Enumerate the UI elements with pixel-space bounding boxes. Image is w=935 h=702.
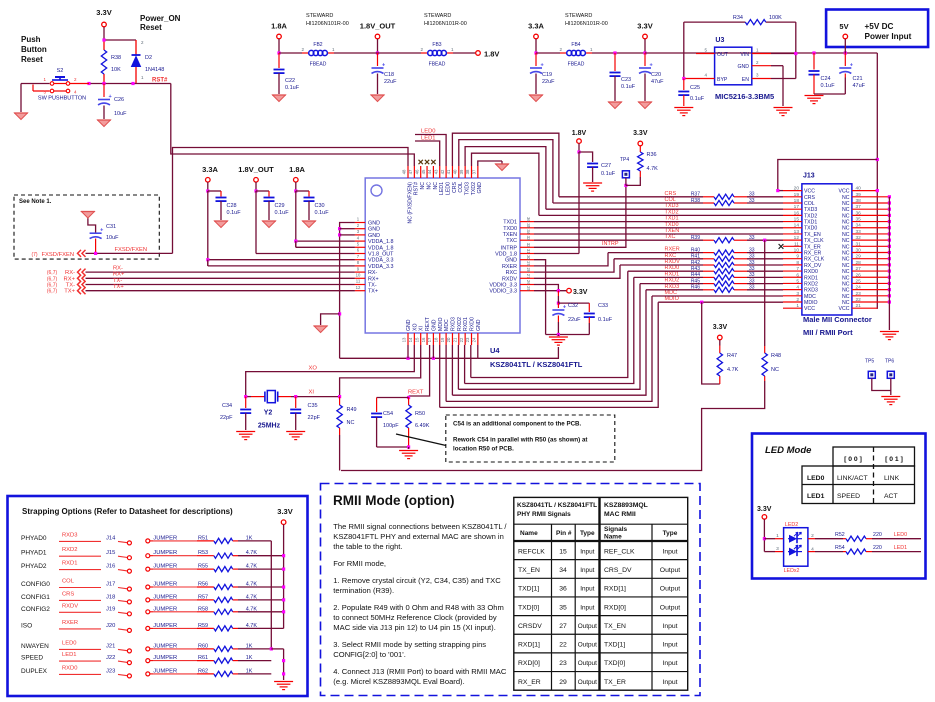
svg-text:16: 16 — [421, 337, 426, 342]
svg-text:MDIO: MDIO — [665, 296, 680, 302]
svg-text:SW PUSHBUTTON: SW PUSHBUTTON — [38, 96, 86, 102]
svg-text:Reset: Reset — [21, 55, 43, 64]
svg-text:REXT: REXT — [408, 390, 424, 396]
svg-text:Output: Output — [578, 623, 597, 630]
svg-text:3: 3 — [796, 291, 799, 297]
svg-text:22uF: 22uF — [384, 79, 397, 85]
svg-text:40: 40 — [453, 169, 458, 174]
svg-text:0.1uF: 0.1uF — [601, 171, 616, 177]
svg-text:31: 31 — [526, 249, 531, 254]
svg-text:RX-: RX- — [113, 266, 123, 272]
svg-text:3.3V: 3.3V — [277, 507, 292, 516]
svg-text:CRS: CRS — [62, 591, 74, 597]
svg-text:R48: R48 — [771, 353, 781, 359]
svg-text:J22: J22 — [106, 655, 115, 661]
svg-text:C31: C31 — [106, 224, 116, 230]
svg-text:GND: GND — [431, 319, 437, 331]
svg-text:RXD2: RXD2 — [665, 278, 680, 284]
svg-text:+: + — [650, 63, 653, 69]
svg-text:PHYAD2: PHYAD2 — [21, 563, 47, 570]
svg-text:48: 48 — [402, 169, 407, 174]
svg-text:TP6: TP6 — [885, 359, 894, 365]
svg-text:R52: R52 — [835, 532, 845, 538]
svg-text:NC: NC — [842, 294, 850, 300]
svg-text:MDIO: MDIO — [804, 300, 818, 306]
svg-text:RXD[0]: RXD[0] — [604, 604, 626, 611]
svg-text:VCC: VCC — [804, 306, 815, 312]
svg-text:+: + — [382, 63, 385, 69]
svg-text:CRSDV: CRSDV — [518, 623, 542, 630]
svg-text:22: 22 — [559, 642, 567, 649]
svg-text:RXD0: RXD0 — [62, 665, 77, 671]
svg-text:STEWARD: STEWARD — [424, 13, 451, 19]
svg-text:RX+: RX+ — [64, 276, 76, 282]
svg-text:MIC5216-3.3BM5: MIC5216-3.3BM5 — [715, 92, 774, 101]
svg-text:VDDIO_3.3: VDDIO_3.3 — [489, 289, 517, 295]
svg-text:the table to the right.: the table to the right. — [333, 542, 402, 551]
svg-text:NC: NC — [842, 238, 850, 244]
svg-text:8: 8 — [796, 260, 799, 266]
svg-text:C54: C54 — [383, 411, 393, 417]
svg-text:9: 9 — [796, 254, 799, 260]
svg-text:RXC: RXC — [665, 253, 677, 259]
svg-text:TXD[0]: TXD[0] — [604, 660, 625, 667]
svg-text:+: + — [109, 94, 112, 100]
svg-text:MDC: MDC — [444, 319, 450, 331]
svg-text:C33: C33 — [598, 303, 608, 309]
svg-text:RXD3: RXD3 — [62, 532, 77, 538]
svg-text:33: 33 — [526, 236, 531, 241]
svg-text:3. Select RMII mode by settin: 3. Select RMII mode by setting strapping… — [333, 640, 486, 649]
svg-text:26: 26 — [526, 280, 531, 285]
svg-text:FB2: FB2 — [313, 42, 322, 48]
svg-text:NC: NC — [842, 257, 850, 263]
svg-text:NC: NC — [426, 182, 432, 190]
svg-text:C29: C29 — [275, 203, 285, 209]
svg-text:RXD3: RXD3 — [450, 317, 456, 331]
svg-text:Name: Name — [520, 530, 538, 537]
svg-text:(e.g. Micrel KSZ8893MQL Eval B: (e.g. Micrel KSZ8893MQL Eval Board). — [333, 677, 464, 686]
svg-text:1: 1 — [796, 303, 799, 309]
svg-text:RXER: RXER — [62, 620, 78, 626]
svg-text:C19: C19 — [542, 72, 552, 78]
svg-text:15: 15 — [414, 337, 419, 342]
svg-text:TX_ER: TX_ER — [804, 244, 821, 250]
svg-text:GND: GND — [368, 221, 380, 227]
svg-text:47uF: 47uF — [651, 79, 664, 85]
svg-text:(7): (7) — [31, 252, 37, 258]
svg-text:R38: R38 — [111, 55, 121, 61]
svg-text:C30: C30 — [315, 203, 325, 209]
svg-text:COL: COL — [665, 197, 676, 203]
svg-text:3: 3 — [776, 546, 779, 552]
svg-text:J15: J15 — [106, 550, 115, 556]
svg-text:TX_ER: TX_ER — [604, 679, 626, 686]
svg-text:The RMII signal connections be: The RMII signal connections between KSZ8… — [333, 522, 507, 531]
svg-text:RXD[1]: RXD[1] — [518, 642, 540, 649]
svg-text:FXSD/FXEN: FXSD/FXEN — [42, 252, 75, 258]
svg-text:PHYAD0: PHYAD0 — [21, 535, 47, 542]
svg-text:220: 220 — [873, 532, 882, 538]
svg-text:R47: R47 — [727, 353, 737, 359]
svg-text:+: + — [563, 305, 566, 311]
svg-text:1N4148: 1N4148 — [145, 67, 164, 73]
svg-text:TX+: TX+ — [368, 289, 378, 295]
svg-text:R36: R36 — [647, 152, 657, 158]
svg-text:38: 38 — [465, 169, 470, 174]
svg-text:10K: 10K — [111, 67, 121, 73]
svg-text:6: 6 — [796, 272, 799, 278]
svg-text:RXD1: RXD1 — [463, 317, 469, 331]
svg-text:TP5: TP5 — [865, 359, 874, 365]
svg-text:KSZ8041FTL PHY and external MA: KSZ8041FTL PHY and external MAC are show… — [333, 532, 504, 541]
svg-text:RXD0: RXD0 — [804, 269, 818, 275]
svg-text:16: 16 — [794, 210, 800, 216]
svg-text:C22: C22 — [285, 78, 295, 84]
svg-text:MAC side via J13 pin 12) to U4: MAC side via J13 pin 12) to U4 pin 15 (X… — [333, 623, 496, 632]
svg-text:Signals: Signals — [604, 526, 628, 533]
svg-text:21: 21 — [453, 337, 458, 342]
svg-text:termination (R39).: termination (R39). — [333, 586, 394, 595]
svg-text:LED1: LED1 — [894, 545, 907, 551]
svg-text:28: 28 — [526, 268, 531, 273]
svg-text:LED1: LED1 — [807, 493, 825, 500]
svg-text:NC: NC — [842, 207, 850, 213]
svg-text:KSZ8041TL / KSZ8041FTL: KSZ8041TL / KSZ8041FTL — [490, 360, 583, 369]
svg-text:1.8A: 1.8A — [271, 22, 287, 31]
svg-text:LINK: LINK — [884, 475, 900, 482]
svg-text:25MHz: 25MHz — [258, 423, 281, 430]
svg-text:NC: NC — [842, 244, 850, 250]
svg-text:Button: Button — [21, 45, 47, 54]
svg-text:RXD2: RXD2 — [62, 547, 77, 553]
svg-text:0.1uF: 0.1uF — [821, 83, 836, 89]
svg-text:HI1206N101R-00: HI1206N101R-00 — [565, 21, 608, 27]
svg-text:TX-: TX- — [66, 283, 75, 289]
svg-text:TXD1: TXD1 — [503, 220, 517, 226]
svg-text:RX-: RX- — [65, 270, 75, 276]
svg-text:VCC: VCC — [804, 189, 815, 195]
svg-text:INTRP: INTRP — [501, 245, 518, 251]
svg-text:TX_EN: TX_EN — [518, 567, 540, 574]
svg-text:29: 29 — [526, 261, 531, 266]
svg-text:NC: NC — [842, 226, 850, 232]
svg-text:Input: Input — [662, 623, 677, 630]
svg-text:TXD3: TXD3 — [804, 207, 817, 213]
svg-text:C27: C27 — [601, 163, 611, 169]
svg-text:NC (FXSD/FXEN): NC (FXSD/FXEN) — [407, 182, 413, 224]
svg-text:Output: Output — [660, 567, 681, 574]
svg-text:VDDA_1.8: VDDA_1.8 — [368, 245, 393, 251]
svg-text:47: 47 — [408, 169, 413, 174]
svg-text:23: 23 — [465, 337, 470, 342]
svg-text:R54: R54 — [835, 545, 845, 551]
svg-text:3.3V: 3.3V — [573, 289, 588, 296]
svg-text:4.7K: 4.7K — [647, 166, 659, 172]
svg-text:Input: Input — [580, 548, 594, 555]
svg-text:Input: Input — [662, 548, 677, 555]
svg-text:15: 15 — [559, 548, 567, 555]
svg-text:FB4: FB4 — [571, 42, 580, 48]
svg-text:C25: C25 — [690, 85, 700, 91]
svg-text:J20: J20 — [106, 623, 115, 629]
svg-text:17: 17 — [427, 337, 432, 342]
svg-text:Pin #: Pin # — [556, 530, 572, 537]
svg-text:19: 19 — [794, 192, 800, 198]
svg-text:220: 220 — [873, 545, 882, 551]
svg-text:15: 15 — [794, 217, 800, 223]
svg-text:0.1uF: 0.1uF — [598, 317, 613, 323]
svg-text:Input: Input — [662, 679, 677, 686]
svg-text:LED0: LED0 — [807, 475, 825, 482]
svg-text:BYP: BYP — [717, 77, 728, 83]
svg-text:PHY RMII Signals: PHY RMII Signals — [517, 511, 571, 518]
svg-text:7: 7 — [796, 266, 799, 272]
svg-text:32: 32 — [526, 243, 531, 248]
svg-text:to connect 50MHz Reference Clo: to connect 50MHz Reference Clock (provid… — [333, 613, 497, 622]
svg-text:MDC: MDC — [804, 294, 816, 300]
svg-text:43: 43 — [433, 169, 438, 174]
svg-text:1. Remove crystal circuit (Y2: 1. Remove crystal circuit (Y2, C34, C35)… — [333, 576, 501, 585]
svg-text:18: 18 — [433, 337, 438, 342]
svg-text:Output: Output — [578, 679, 597, 686]
svg-text:100pF: 100pF — [383, 423, 399, 429]
svg-text:MII / RMII Port: MII / RMII Port — [803, 328, 853, 337]
svg-text:MAC RMII: MAC RMII — [604, 511, 636, 518]
svg-text:RXER: RXER — [665, 247, 680, 253]
svg-text:C35: C35 — [308, 403, 318, 409]
svg-text:C21: C21 — [853, 76, 863, 82]
svg-text:Name: Name — [604, 534, 622, 541]
svg-text:Power Input: Power Input — [865, 32, 912, 41]
svg-text:TXD2: TXD2 — [665, 209, 679, 215]
svg-text:11: 11 — [794, 241, 799, 247]
svg-text:SPEED: SPEED — [21, 655, 43, 662]
svg-text:GND: GND — [368, 233, 380, 239]
svg-text:NC: NC — [842, 300, 850, 306]
svg-text:LED0: LED0 — [421, 129, 436, 135]
svg-text:CRS_DV: CRS_DV — [604, 567, 632, 574]
svg-text:XI: XI — [419, 326, 425, 331]
svg-text:FBEAD: FBEAD — [310, 62, 327, 68]
svg-text:(6,7): (6,7) — [47, 276, 58, 282]
svg-text:SPEED: SPEED — [837, 493, 860, 500]
svg-text:RX_CLK: RX_CLK — [804, 257, 825, 263]
svg-text:RXD0: RXD0 — [665, 265, 680, 271]
svg-text:0.1uF: 0.1uF — [227, 210, 242, 216]
svg-text:J16: J16 — [106, 564, 115, 570]
svg-text:LINK/ACT: LINK/ACT — [837, 475, 868, 482]
svg-text:RST#: RST# — [414, 182, 420, 195]
svg-text:47uF: 47uF — [853, 83, 866, 89]
svg-text:2. Populate R49 with 0 Ohm an: 2. Populate R49 with 0 Ohm and R48 with … — [333, 603, 504, 612]
svg-text:DUPLEX: DUPLEX — [21, 668, 48, 675]
svg-text:22pF: 22pF — [220, 415, 233, 421]
svg-text:11: 11 — [356, 279, 361, 284]
svg-text:GND: GND — [406, 319, 412, 331]
svg-text:CONFIG[2:0] to '001'.: CONFIG[2:0] to '001'. — [333, 650, 406, 659]
svg-text:36: 36 — [559, 586, 567, 593]
svg-text:RX+: RX+ — [368, 276, 379, 282]
svg-text:REF_CLK: REF_CLK — [604, 548, 635, 555]
svg-text:LED1: LED1 — [439, 182, 445, 195]
svg-text:RXD3: RXD3 — [665, 284, 680, 290]
svg-text:1.8V: 1.8V — [484, 50, 499, 59]
svg-text:NC: NC — [347, 420, 355, 426]
svg-text:+5V DC: +5V DC — [865, 22, 894, 31]
svg-text:NC: NC — [842, 263, 850, 269]
svg-text:10: 10 — [356, 273, 361, 278]
svg-text:34: 34 — [559, 567, 567, 574]
svg-text:4. Connect J13 (RMII Port) to: 4. Connect J13 (RMII Port) to board with… — [333, 667, 507, 676]
svg-text:RXER: RXER — [502, 264, 517, 270]
svg-text:30: 30 — [526, 255, 531, 260]
svg-text:3.3V: 3.3V — [96, 8, 111, 17]
svg-text:TXD[1]: TXD[1] — [604, 642, 625, 649]
svg-text:R34: R34 — [733, 15, 743, 21]
svg-text:Input: Input — [580, 567, 594, 574]
svg-text:1.8A: 1.8A — [289, 165, 305, 174]
svg-text:VDD_1.8: VDD_1.8 — [495, 252, 517, 258]
svg-text:34: 34 — [526, 229, 531, 234]
svg-text:45: 45 — [421, 169, 426, 174]
svg-text:35: 35 — [559, 604, 567, 611]
svg-text:0.1uF: 0.1uF — [315, 210, 330, 216]
svg-text:3.3V: 3.3V — [713, 324, 728, 331]
svg-text:Rework C54 in parallel with R5: Rework C54 in parallel with R50 (as show… — [453, 437, 587, 444]
svg-text:Male MII Connector: Male MII Connector — [803, 315, 872, 324]
svg-text:XO: XO — [309, 366, 318, 372]
svg-text:12: 12 — [794, 235, 800, 241]
svg-text:Input: Input — [580, 604, 594, 611]
svg-text:EN: EN — [742, 77, 749, 83]
svg-text:RX+: RX+ — [113, 272, 125, 278]
svg-text:TXD0: TXD0 — [665, 222, 679, 228]
svg-text:CRS: CRS — [452, 181, 458, 192]
svg-text:COL: COL — [458, 182, 464, 193]
svg-text:VCC: VCC — [839, 306, 850, 312]
svg-text:TXC: TXC — [665, 234, 676, 240]
svg-text:RX_ER: RX_ER — [804, 251, 822, 257]
svg-text:C18: C18 — [384, 72, 394, 78]
svg-text:TXD1: TXD1 — [665, 216, 679, 222]
svg-text:TP4: TP4 — [620, 157, 629, 163]
svg-text:20: 20 — [794, 186, 800, 192]
svg-text:ACT: ACT — [884, 493, 898, 500]
svg-text:10: 10 — [794, 248, 800, 254]
svg-text:RXD[0]: RXD[0] — [518, 660, 540, 667]
svg-text:STEWARD: STEWARD — [565, 13, 592, 19]
svg-text:R50: R50 — [415, 411, 425, 417]
svg-text:Type: Type — [663, 530, 678, 537]
svg-text:1.8V_OUT: 1.8V_OUT — [360, 22, 396, 31]
svg-text:RXD1: RXD1 — [62, 561, 77, 567]
svg-text:NC: NC — [842, 269, 850, 275]
svg-text:COL: COL — [804, 201, 815, 207]
svg-text:LED0: LED0 — [894, 532, 907, 538]
svg-text:41: 41 — [446, 169, 451, 174]
svg-text:GND: GND — [737, 64, 749, 70]
svg-text:CRS: CRS — [665, 191, 677, 197]
svg-text:1.8V_OUT: 1.8V_OUT — [238, 165, 274, 174]
svg-text:NC: NC — [842, 275, 850, 281]
svg-text:NC: NC — [842, 201, 850, 207]
svg-text:COL: COL — [62, 579, 75, 585]
svg-text:FBEAD: FBEAD — [429, 62, 446, 68]
svg-text:12: 12 — [356, 285, 361, 290]
svg-text:25: 25 — [526, 286, 531, 291]
svg-text:RXD2: RXD2 — [804, 281, 818, 287]
svg-text:XO: XO — [412, 324, 418, 332]
svg-text:Input: Input — [662, 660, 677, 667]
svg-text:RXD2: RXD2 — [457, 317, 463, 331]
svg-text:C26: C26 — [114, 97, 124, 103]
svg-text:MDIO: MDIO — [438, 317, 444, 331]
svg-text:D2: D2 — [145, 55, 152, 61]
svg-text:13: 13 — [402, 337, 407, 342]
svg-text:NC: NC — [842, 281, 850, 287]
svg-text:6.49K: 6.49K — [415, 423, 430, 429]
svg-text:TXD2: TXD2 — [471, 182, 477, 195]
svg-text:KSZ8041TL / KSZ8041FTL: KSZ8041TL / KSZ8041FTL — [517, 502, 597, 509]
svg-text:TXD3: TXD3 — [665, 203, 679, 209]
svg-text:RST#: RST# — [152, 78, 168, 84]
svg-text:Output: Output — [660, 586, 681, 593]
svg-text:C54 is an additional component: C54 is an additional component to the PC… — [453, 421, 582, 428]
svg-text:NC: NC — [771, 367, 779, 373]
svg-text:(6,7): (6,7) — [47, 283, 58, 289]
svg-text:U3: U3 — [715, 37, 724, 44]
svg-text:CONFIG2: CONFIG2 — [21, 606, 50, 613]
svg-text:J18: J18 — [106, 594, 115, 600]
svg-text:FB3: FB3 — [432, 42, 441, 48]
svg-text:Type: Type — [580, 530, 595, 537]
svg-text:35: 35 — [526, 223, 531, 228]
svg-text:3.3V: 3.3V — [633, 130, 648, 137]
svg-text:TXD1: TXD1 — [804, 220, 817, 226]
svg-text:39: 39 — [459, 169, 464, 174]
svg-text:46: 46 — [414, 169, 419, 174]
svg-text:REXT: REXT — [425, 316, 431, 331]
svg-text:10uF: 10uF — [106, 235, 119, 241]
svg-text:S2: S2 — [57, 68, 64, 74]
svg-text:+: + — [541, 63, 544, 69]
svg-text:0.1uF: 0.1uF — [690, 96, 705, 102]
svg-text:Input: Input — [662, 642, 677, 649]
svg-text:5: 5 — [796, 278, 799, 284]
svg-text:20: 20 — [446, 337, 451, 342]
svg-text:3.3V: 3.3V — [637, 22, 652, 31]
svg-text:RXD0: RXD0 — [470, 317, 476, 331]
svg-text:29: 29 — [559, 679, 567, 686]
svg-text:NC: NC — [420, 182, 426, 190]
svg-text:24: 24 — [472, 337, 477, 342]
svg-text:Strapping Options (Refer to D: Strapping Options (Refer to Datasheet fo… — [22, 507, 233, 516]
svg-text:TX_EN: TX_EN — [604, 623, 626, 630]
svg-text:2: 2 — [796, 297, 799, 303]
svg-text:V1.8_OUT: V1.8_OUT — [368, 252, 394, 258]
svg-text:HI1206N101R-00: HI1206N101R-00 — [424, 21, 467, 27]
svg-text:TX-: TX- — [368, 283, 377, 289]
svg-text:Y2: Y2 — [264, 410, 273, 417]
svg-text:C23: C23 — [621, 77, 631, 83]
svg-text:18: 18 — [794, 198, 800, 204]
svg-text:Push: Push — [21, 35, 41, 44]
svg-text:27: 27 — [526, 274, 531, 279]
svg-text:14: 14 — [794, 223, 800, 229]
svg-text:VDDIO_3.3: VDDIO_3.3 — [489, 283, 517, 289]
svg-text:J21: J21 — [106, 643, 115, 649]
